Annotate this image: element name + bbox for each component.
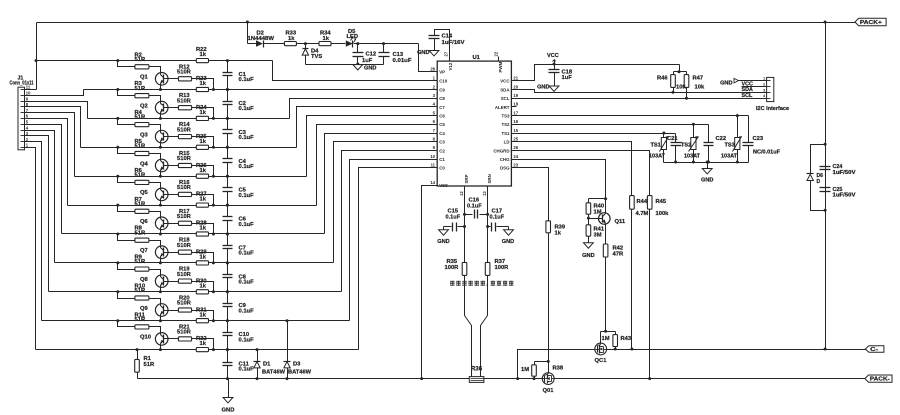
label R4 — [135, 110, 143, 116]
wire row2 bus — [88, 118, 290, 120]
svg-text:510R: 510R — [177, 185, 192, 191]
wire SRP line — [464, 187, 466, 263]
label C4 value — [239, 164, 255, 170]
label C15 — [448, 209, 459, 215]
svg-text:25: 25 — [513, 137, 518, 142]
label R32 value — [200, 341, 207, 347]
label Q10 — [140, 335, 151, 341]
resistor R23 — [196, 87, 208, 91]
svg-text:PACK-: PACK- — [870, 377, 890, 383]
label D6 — [817, 173, 824, 179]
wire R8 to Q7 collector — [149, 241, 161, 244]
pin CHG number — [513, 154, 518, 159]
svg-text:Q8: Q8 — [140, 277, 149, 283]
svg-text:1M: 1M — [602, 336, 610, 342]
wire R7 stub — [118, 206, 135, 212]
pin 10 tick — [21, 95, 25, 97]
transistor Q1 — [155, 70, 168, 88]
I2C pin 2 stub — [763, 86, 767, 88]
wire PACK- rail — [555, 378, 865, 380]
svg-text:1N4448W: 1N4448W — [248, 36, 275, 42]
resistor R9 — [135, 267, 149, 271]
wire R34 to D5 — [332, 43, 346, 45]
wire J1 pin 7 to row4 — [25, 113, 75, 177]
svg-text:PWM: PWM — [498, 61, 503, 72]
label C22 — [716, 136, 727, 142]
svg-text:0.1uF: 0.1uF — [239, 135, 255, 141]
pin TS1 number — [513, 128, 518, 133]
svg-text:15: 15 — [513, 128, 518, 133]
junction base drop row10 — [212, 348, 215, 351]
svg-text:0.1uF: 0.1uF — [239, 280, 255, 286]
wire R12 to row1 — [192, 79, 214, 90]
svg-text:GND: GND — [701, 178, 713, 184]
svg-text:R45: R45 — [656, 199, 667, 205]
resistor R38 — [532, 362, 537, 377]
wire row8 to C2 pin — [342, 151, 438, 292]
wire Q4 emitter to row4 — [160, 175, 162, 177]
label R15 value — [177, 156, 192, 162]
wire J1 pin 4 to row7 — [25, 131, 55, 263]
junction row8 stub — [116, 290, 119, 293]
label D2 — [257, 31, 264, 37]
label GND C17 — [502, 239, 514, 245]
junction C7 top — [226, 233, 229, 236]
svg-text:1k: 1k — [555, 230, 562, 236]
svg-text:BAT46W: BAT46W — [288, 369, 312, 375]
wire row7 to C3 pin — [334, 142, 438, 263]
svg-text:C1: C1 — [439, 157, 445, 162]
svg-text:1k: 1k — [200, 52, 207, 58]
svg-text:0.1uF: 0.1uF — [239, 106, 255, 112]
wire R2 to Q1 collector — [149, 67, 161, 70]
label Q01 — [543, 388, 555, 394]
ground symbol C18 — [549, 86, 559, 91]
wire R7 to Q6 collector — [149, 212, 161, 215]
connector J1 body — [18, 87, 25, 150]
label R42 — [613, 246, 624, 252]
wire R3 stub — [118, 90, 135, 96]
svg-text:51R: 51R — [135, 115, 146, 121]
label C23 — [753, 136, 764, 142]
svg-text:100R: 100R — [495, 265, 510, 271]
wire J1 pin 5 to row6 — [25, 125, 62, 234]
pin 4 tick — [21, 130, 25, 132]
wire row10 bus — [36, 349, 359, 351]
resistor R17 — [178, 221, 191, 225]
pin LD number — [513, 137, 518, 142]
wire row5 to C5 pin — [317, 125, 438, 206]
junction therm bracket — [736, 161, 739, 164]
label R16 value — [177, 185, 192, 191]
resistor R10 — [135, 296, 149, 300]
diode D3 — [284, 321, 291, 379]
pin 9 number — [26, 96, 29, 101]
wire row7 bus — [55, 262, 334, 264]
pin ALERT stub — [512, 106, 517, 108]
I2C pin 3 number — [763, 87, 766, 92]
resistor R13 — [178, 106, 191, 110]
svg-text:510R: 510R — [177, 301, 192, 307]
junction D4 tap — [304, 42, 307, 45]
wire R38 bracket — [535, 361, 549, 363]
pin DSG number — [513, 163, 518, 168]
svg-text:VCC: VCC — [547, 53, 559, 59]
capacitor C18 — [549, 65, 560, 87]
svg-text:1k: 1k — [200, 226, 207, 232]
junction base drop row3 — [212, 146, 215, 149]
label C24 value — [833, 170, 857, 176]
pin 13 number — [482, 191, 487, 196]
resistor R27 — [196, 203, 208, 207]
label GND C14 — [417, 50, 429, 56]
svg-text:VSS: VSS — [439, 183, 448, 188]
pin 22 stub — [498, 57, 500, 62]
capacitor C6 — [223, 206, 233, 234]
wire R43 bracket — [606, 331, 616, 333]
resistor R11 — [135, 325, 149, 329]
wire R1 bottom lead — [137, 373, 139, 379]
junction C12 top — [356, 42, 359, 45]
wire D6 bottom — [811, 181, 826, 211]
pin C8 number — [433, 93, 436, 98]
I2C pin 4 tick — [767, 98, 771, 100]
label D4 value — [311, 54, 322, 60]
wire J1 pin 1 to row10 — [25, 148, 36, 350]
junction C11 top — [226, 348, 229, 351]
wire Q8 emitter to row8 — [160, 291, 162, 292]
pin 27 name — [448, 62, 453, 70]
svg-text:103AT: 103AT — [684, 154, 701, 160]
wire R4 to Q3 collector — [149, 125, 161, 128]
svg-text:510R: 510R — [177, 272, 192, 278]
ground symbol VP filter — [353, 65, 363, 70]
label net SDA — [742, 87, 753, 93]
svg-text:GND: GND — [364, 66, 376, 72]
svg-text:103AT: 103AT — [721, 154, 738, 160]
wire LD — [512, 142, 632, 196]
label C25 — [833, 187, 843, 193]
label R13 value — [177, 98, 192, 104]
pin VP number — [430, 66, 435, 71]
label C1 — [239, 72, 247, 78]
resistor R15 — [178, 163, 191, 167]
svg-text:17: 17 — [513, 110, 518, 115]
svg-text:C22: C22 — [716, 136, 727, 142]
diode D6 — [807, 174, 814, 181]
pin 2 number — [26, 137, 29, 142]
I2C pin 1 number — [763, 76, 766, 81]
label R16 — [179, 180, 190, 186]
svg-text:TS2: TS2 — [501, 122, 510, 127]
wire QC1 gate drop — [601, 332, 606, 344]
svg-text:PACK+: PACK+ — [860, 20, 883, 26]
pin 6 number — [26, 114, 29, 119]
junction therm bracket — [674, 161, 677, 164]
wire SRN line — [487, 187, 489, 263]
junction Q11 base node — [587, 217, 590, 220]
wire R5 stub — [118, 148, 135, 154]
resistor R24 — [196, 116, 208, 120]
svg-text:1k: 1k — [200, 197, 207, 203]
wire pullup bracket — [674, 71, 687, 73]
wire J1 pin 8 to row3 — [25, 107, 81, 148]
pin TS1 name — [501, 131, 510, 136]
junction C24 branch bottom — [824, 209, 827, 212]
svg-text:R36: R36 — [471, 365, 483, 372]
label C5 — [239, 188, 247, 194]
resistor R5 — [135, 151, 149, 155]
resistor R34 — [319, 42, 331, 46]
label C8 — [239, 274, 247, 280]
svg-text:Q01: Q01 — [543, 388, 555, 394]
svg-text:0.1uF: 0.1uF — [239, 222, 255, 228]
label C15 value — [446, 215, 461, 221]
wire stack+ vertical (rail to J1 pin 11) — [36, 23, 38, 90]
junction therm bracket — [692, 161, 695, 164]
label C9 value — [239, 308, 255, 314]
junction R43 rail — [614, 348, 617, 351]
svg-text:1M: 1M — [521, 367, 529, 373]
capacitor C12 — [353, 44, 364, 65]
wire row4 to C6 pin — [307, 116, 438, 177]
label R35 — [447, 259, 458, 265]
label C16 — [469, 197, 480, 203]
wire R10 to Q9 collector — [149, 299, 161, 302]
pin 2 tick — [21, 141, 25, 143]
wire CHGRD — [512, 151, 650, 196]
label GND R41 — [582, 253, 594, 259]
label C10 value — [239, 337, 255, 343]
label R33 value — [288, 36, 295, 42]
svg-text:CHGRD: CHGRD — [493, 148, 509, 153]
label R47 value — [695, 84, 705, 90]
wire row8 bus — [49, 291, 342, 293]
junction railA jog — [516, 377, 519, 380]
svg-text:Q11: Q11 — [615, 219, 626, 225]
svg-text:510R: 510R — [177, 214, 192, 220]
label C5 value — [239, 193, 255, 199]
wire row2 to C8 pin — [290, 99, 438, 119]
pin ALERT number — [513, 102, 518, 107]
svg-text:24: 24 — [513, 154, 518, 159]
resistor R1 — [135, 359, 140, 372]
resistor R32 — [196, 348, 208, 352]
capacitor C5 — [223, 177, 233, 206]
junction C15 right — [463, 225, 466, 228]
svg-text:SRP: SRP — [464, 174, 469, 183]
label R5 — [135, 139, 143, 145]
label Conn_01x11 — [10, 81, 34, 87]
junction Q3 emitter — [159, 146, 162, 149]
label TS2 — [681, 143, 691, 149]
wire Q8 base — [164, 281, 179, 283]
resistor R47 — [684, 72, 689, 99]
pin C10 name — [439, 79, 448, 84]
wire C17 gnd drop — [508, 227, 510, 230]
junction Q1 emitter — [159, 88, 162, 91]
junction Q10 emitter — [159, 348, 162, 351]
svg-text:DSG: DSG — [500, 166, 510, 171]
transistor Q3 — [155, 128, 168, 146]
wire R33 to R34 — [297, 43, 320, 45]
label R17 — [179, 209, 190, 215]
capacitor C13 — [379, 44, 390, 65]
label TS1 — [651, 143, 661, 149]
label Q11 — [615, 219, 626, 225]
label R38 value — [521, 367, 529, 373]
pin ALERT name — [495, 105, 510, 110]
junction row4 stub — [116, 175, 119, 178]
svg-text:C6: C6 — [439, 114, 445, 119]
capacitor C3 — [223, 119, 233, 148]
pin 13 name — [487, 174, 492, 183]
svg-text:TS3: TS3 — [501, 114, 510, 119]
wire R35 to shunt — [464, 276, 466, 316]
label C23 value — [753, 149, 781, 155]
pin C1 name — [439, 157, 445, 162]
label R19 value — [177, 272, 192, 278]
label R31 — [196, 307, 207, 313]
junction C8 top — [226, 261, 229, 264]
pin 10 number — [26, 91, 31, 96]
label R14 — [179, 122, 190, 128]
I2C pin 3 tick — [767, 92, 771, 94]
capacitor C15 — [444, 223, 465, 232]
junction R47 SCL — [685, 97, 688, 100]
wire R16 to row5 — [192, 195, 214, 206]
svg-text:C3: C3 — [439, 140, 445, 145]
label C1 value — [239, 77, 255, 83]
svg-text:51R: 51R — [135, 57, 146, 63]
wire VSS to gnd rail — [422, 186, 438, 379]
junction base drop row5 — [212, 204, 215, 207]
svg-text:510R: 510R — [177, 330, 192, 336]
wire R5 to Q4 collector — [149, 154, 161, 157]
label R20 value — [177, 301, 192, 307]
label I2C Interface — [756, 106, 789, 112]
label Q6 — [140, 219, 149, 225]
resistor R43 — [613, 332, 618, 347]
svg-text:510R: 510R — [177, 156, 192, 162]
junction R46 SDA — [672, 91, 675, 94]
label R9 value — [135, 259, 146, 265]
svg-text:D: D — [817, 179, 821, 185]
wire R1 top lead — [137, 350, 139, 360]
label TS2 value — [684, 154, 701, 160]
wire row3 to C7 pin — [297, 107, 438, 148]
label TS1 value — [649, 154, 666, 160]
label R21 — [179, 324, 190, 330]
pin C6 name — [439, 114, 445, 119]
junction branch railA — [824, 348, 827, 351]
pin 27 number — [444, 51, 449, 56]
wire Q11 base — [589, 218, 603, 220]
svg-text:51R: 51R — [135, 86, 146, 92]
wire R15 to row4 — [192, 166, 214, 177]
resistor R30 — [196, 290, 208, 294]
svg-text:3M: 3M — [594, 233, 602, 239]
junction C16 left — [463, 213, 466, 216]
transistor QC1 (charge MOSFET) — [595, 343, 607, 355]
svg-text:Q5: Q5 — [140, 190, 149, 196]
wire chain to VP pin — [419, 44, 438, 72]
wire Q9 emitter to row9 — [160, 320, 162, 321]
transistor Q7 — [155, 244, 168, 262]
svg-text:51R: 51R — [135, 173, 146, 179]
svg-text:R46: R46 — [657, 76, 668, 82]
pin 7 tick — [21, 112, 25, 114]
wire J1 pin 2 to row9 — [25, 142, 42, 321]
pin C7 number — [433, 102, 436, 107]
junction Q9 emitter — [159, 319, 162, 322]
junction VSS rail — [420, 377, 423, 380]
label GND C15 — [437, 239, 449, 245]
label R10 value — [135, 288, 146, 294]
pin TS2 number — [513, 119, 518, 124]
label R5 value — [135, 144, 146, 150]
svg-text:I2C Interface: I2C Interface — [756, 106, 789, 112]
pin 11 tick — [21, 89, 25, 91]
svg-text:C5: C5 — [439, 122, 445, 127]
svg-text:GND: GND — [417, 50, 429, 56]
junction row1 stub — [116, 88, 119, 91]
label C25 value — [833, 193, 857, 199]
pin SCL number — [513, 93, 518, 98]
svg-text:SCL: SCL — [501, 96, 510, 101]
wire row3 bus — [81, 147, 297, 149]
junction row2 stub — [116, 117, 119, 120]
wire Q7 base — [164, 252, 179, 254]
junction TS2 top — [692, 123, 695, 126]
wire VP tap drop — [247, 23, 249, 44]
svg-text:Q9: Q9 — [140, 306, 149, 312]
label R27 — [196, 192, 207, 198]
wire row9 bus — [42, 320, 350, 322]
svg-text:D1: D1 — [263, 361, 271, 367]
junction C10 bottom — [226, 348, 229, 351]
junction QC1 gate node — [604, 330, 607, 333]
label R34 — [320, 31, 331, 37]
capacitor C1 — [223, 61, 233, 90]
junction C17 left — [486, 225, 489, 228]
svg-text:1uF/50V: 1uF/50V — [833, 193, 857, 199]
svg-text:12: 12 — [459, 191, 464, 196]
wire R8 stub — [118, 234, 135, 241]
svg-text:NC/0.01uF: NC/0.01uF — [753, 149, 781, 155]
resistor R46 — [671, 72, 676, 93]
label R30 — [196, 278, 207, 284]
label R6 — [135, 168, 143, 174]
label C12 value — [362, 58, 373, 64]
resistor R7 — [135, 209, 149, 213]
svg-text:Q2: Q2 — [140, 104, 148, 110]
svg-text:V12: V12 — [448, 62, 453, 70]
label C9 — [239, 303, 247, 309]
junction CHG bracket — [604, 197, 607, 200]
label QC1 — [595, 358, 608, 364]
pin C4 name — [439, 131, 445, 136]
label C7 — [239, 245, 246, 251]
svg-text:GND: GND — [222, 408, 235, 414]
wire railA right — [607, 349, 866, 351]
label R25 value — [200, 139, 207, 145]
thermistor TS2 — [689, 125, 699, 163]
wire Q4 base — [164, 165, 179, 167]
svg-text:0.1uF: 0.1uF — [239, 337, 255, 343]
wire D6 branch — [811, 145, 826, 174]
junction TS1 top — [662, 132, 665, 135]
